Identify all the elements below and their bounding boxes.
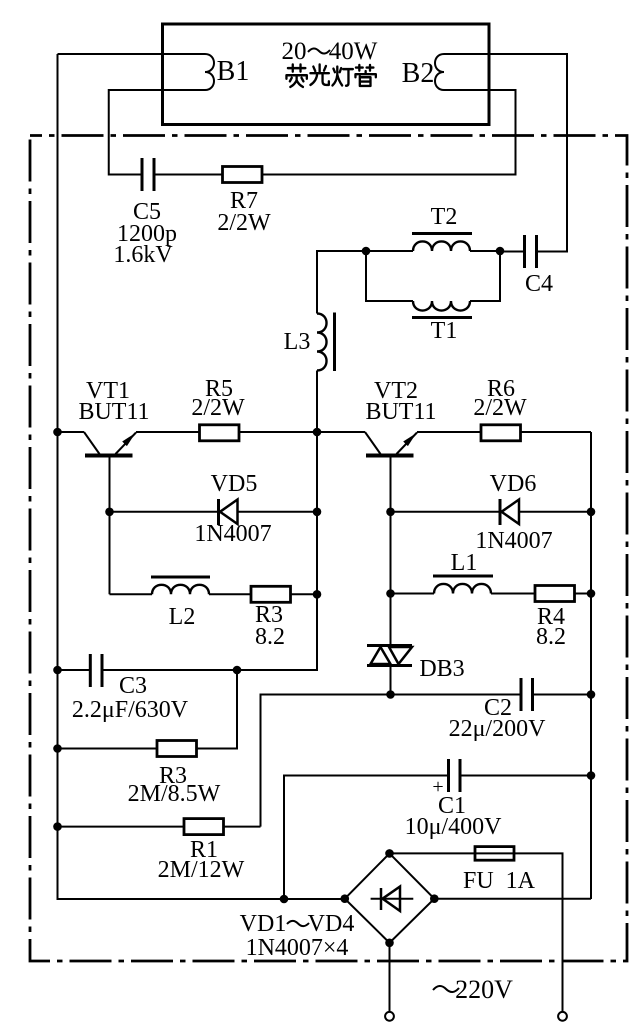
T2 core bar [412, 232, 472, 235]
junction left T node [362, 247, 371, 256]
L3 core bar [333, 313, 336, 372]
transformer T1 branch wires [366, 251, 500, 301]
wire C3 row [58, 669, 90, 671]
svg-text:FU 1A: FU 1A [463, 868, 536, 894]
lamp label 荧 (drawn glyph) [286, 65, 306, 87]
junction C3 row / R3 riser [233, 666, 242, 675]
svg-text:BUT11: BUT11 [365, 399, 436, 425]
capacitor C3 [90, 654, 102, 687]
junction VD6 right [587, 508, 596, 517]
resistor R7 [223, 167, 263, 183]
svg-text:BUT11: BUT11 [78, 399, 149, 425]
wire C1 to right rail [462, 775, 592, 777]
wire DB3 to C2 row [390, 666, 392, 695]
wire L3 to center junction [316, 371, 318, 433]
central vertical wire [316, 432, 318, 594]
enclosure dash-dot border [30, 136, 627, 962]
junction C1 / right rail [587, 771, 596, 780]
svg-text:L3: L3 [284, 329, 311, 355]
wire B2 top to C4 [444, 54, 567, 252]
transistor VT1 [84, 432, 136, 594]
wire R1 row [58, 826, 185, 828]
svg-text:L2: L2 [169, 604, 196, 630]
svg-text:2M/8.5W: 2M/8.5W [128, 781, 221, 807]
wire B1 bottom to C5 [109, 90, 205, 175]
wire T node to L3 [317, 251, 366, 314]
wire C4 to right T node [500, 251, 523, 253]
junction R4 / right rail [587, 589, 596, 598]
wire R6 to right rail [521, 431, 592, 433]
svg-text:C4: C4 [525, 271, 553, 297]
svg-text:2/2W: 2/2W [473, 395, 527, 421]
bridge diamond VD1~VD4 [345, 853, 435, 942]
svg-text:C3: C3 [119, 673, 147, 699]
resistor R1 [184, 819, 224, 835]
svg-text:1.6kV: 1.6kV [113, 242, 173, 268]
wire L1 row left [391, 593, 435, 595]
junction DB3 / C2 row [386, 690, 395, 699]
svg-text:T1: T1 [431, 318, 458, 344]
svg-text:8.2: 8.2 [536, 624, 566, 650]
wire L2 to R3 [209, 593, 251, 595]
resistor R4 [535, 586, 575, 602]
wire R5 to center junction [239, 431, 317, 433]
wire VD5 to central vertical [238, 511, 318, 513]
wire right vertex to right rail [434, 898, 591, 900]
capacitor C2 [521, 678, 533, 711]
resistor R3 (2M) [157, 741, 197, 757]
transformer T1 coil [413, 301, 470, 311]
junction C3 / left rail [53, 666, 62, 675]
svg-text:VD1: VD1 [240, 911, 287, 937]
wire C2 to right rail [534, 694, 591, 696]
mains label ~220V [433, 986, 459, 992]
svg-text:2M/12W: 2M/12W [158, 857, 245, 883]
capacitor C5 [142, 158, 154, 191]
T1 core bar [412, 316, 472, 319]
resistor R6 [481, 425, 521, 441]
capacitor C1 [449, 759, 461, 792]
filament B2 [435, 54, 444, 90]
junction C2 / right rail [587, 690, 596, 699]
bridge inner diode [371, 887, 414, 912]
L1 core bar [433, 575, 493, 578]
junction C1 riser / bottom wire [280, 895, 289, 904]
junction R1 / left rail [53, 822, 62, 831]
right rail [590, 432, 592, 899]
inductor L2 coil [152, 585, 209, 595]
junction VT1 base / VD5 [105, 508, 114, 517]
resistor R5 [200, 425, 240, 441]
junction VT2 base / VD6 [386, 508, 395, 517]
resistor R3 (8.2) [251, 586, 291, 602]
wire T2 to right T node [470, 250, 500, 252]
svg-text:2.2μF/630V: 2.2μF/630V [72, 697, 189, 723]
diode VD5 [219, 499, 238, 525]
center junction [313, 428, 322, 437]
fuse FU [475, 847, 514, 861]
svg-text:20: 20 [282, 38, 307, 65]
junction right T node [496, 247, 505, 256]
terminal circle left [385, 1012, 394, 1021]
svg-text:22μ/200V: 22μ/200V [449, 716, 547, 742]
transformer T2 coil [413, 241, 470, 251]
svg-text:220V: 220V [455, 975, 513, 1004]
lamp label 灯 (drawn glyph) [332, 67, 352, 86]
svg-text:8.2: 8.2 [255, 624, 285, 650]
wire bottom vertex to terminal [389, 943, 391, 1012]
wire C3 to central vertical [104, 594, 318, 670]
wire VT1 base to VD5 [110, 511, 218, 513]
wire C5 to R7 [156, 174, 223, 176]
svg-text:VD4: VD4 [308, 911, 355, 937]
svg-text:B1: B1 [217, 56, 250, 87]
wire R1 to riser [224, 826, 261, 828]
svg-text:1N4007: 1N4007 [194, 521, 271, 547]
svg-text:VD5: VD5 [211, 471, 258, 497]
wire left rail [58, 54, 345, 899]
wire R3 2M row [58, 748, 158, 750]
junction VT2 base / L1 row [386, 589, 395, 598]
wire VD6 to right rail [519, 511, 591, 513]
wire L1 to R4 [491, 593, 535, 595]
svg-text:DB3: DB3 [419, 656, 464, 682]
lamp label 管 (drawn glyph) [355, 65, 375, 86]
terminal circle right [558, 1012, 567, 1021]
wire R3 to central vertical [291, 593, 318, 595]
svg-text:1N4007×4: 1N4007×4 [246, 935, 349, 961]
junction left rail / VT1 collector [53, 428, 62, 437]
wire VT2 emitter to R6 [417, 431, 481, 433]
wire B1 top to left rail [58, 53, 206, 55]
inductor L1 coil [434, 584, 491, 594]
filament B1 [205, 54, 214, 90]
wire left T node to T2 [366, 250, 413, 252]
svg-text:10μ/400V: 10μ/400V [405, 814, 503, 840]
wire C2 row left [391, 694, 520, 696]
svg-text:2/2W: 2/2W [191, 395, 245, 421]
wire R4 to right rail [575, 593, 592, 595]
bridge vertex junctions [385, 849, 394, 858]
diode VD6 [500, 499, 519, 525]
diac DB3 [367, 646, 412, 666]
wire C2 row to R1 riser [261, 695, 391, 827]
svg-text:T2: T2 [431, 204, 458, 230]
fluorescent tube outline [163, 24, 490, 125]
wire R3 2M to C3 row [197, 670, 238, 749]
wire VT1 emitter to R5 [136, 431, 200, 433]
svg-text:40W: 40W [329, 38, 378, 65]
junction VD5 right [313, 508, 322, 517]
capacitor C4 [525, 235, 537, 268]
wire center junction to VT2 [317, 431, 365, 433]
L2 core bar [151, 576, 210, 579]
wire C1 row [284, 776, 447, 900]
wire L2 row left [110, 593, 153, 595]
junction R3 2M / left rail [53, 744, 62, 753]
junction central / L2 row [313, 590, 322, 599]
wire fuse row [390, 853, 563, 1011]
wire VD6 row left [391, 511, 501, 513]
lamp label 光 (drawn glyph) [310, 65, 328, 85]
svg-text:VD6: VD6 [490, 471, 537, 497]
transistor VT2 [365, 432, 417, 646]
svg-text:2/2W: 2/2W [217, 210, 271, 236]
svg-text:L1: L1 [451, 550, 478, 576]
wire R7 to B2 bottom [262, 90, 516, 175]
svg-text:B2: B2 [402, 58, 435, 89]
wire left rail to VT1 [58, 431, 85, 433]
svg-text:1N4007: 1N4007 [475, 528, 552, 554]
inductor L3 coil [317, 314, 327, 371]
